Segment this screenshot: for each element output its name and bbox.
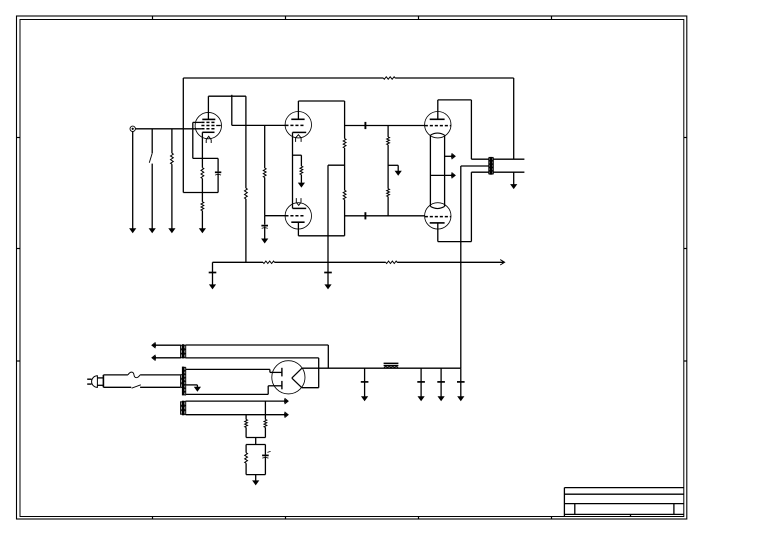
transformer T1 HV winding: [184, 367, 186, 395]
resistor R5 feedback: [183, 77, 513, 79]
wire driver B+ node: [328, 165, 345, 262]
wire B+ rail middle: [275, 261, 386, 263]
V1 plate: [202, 96, 215, 119]
switch S1: [149, 129, 152, 229]
V2b cathode: [293, 207, 307, 209]
resistor R15 humdinger: [245, 415, 248, 438]
tube V4 envelope: [425, 203, 451, 229]
wire OT center tap: [461, 165, 489, 167]
transformer T1 right top winding: [184, 345, 186, 358]
tube V2b envelope: [285, 203, 311, 229]
resistor R16 bias: [245, 445, 266, 475]
wire OT secondary bottom: [493, 171, 524, 173]
ground at S1: [149, 228, 156, 233]
wire input bus: [135, 128, 201, 130]
transformer T1 right bottom winding: [184, 401, 186, 415]
capacitor C3 filter: [209, 262, 217, 289]
wire V2a plate top: [298, 100, 344, 102]
transformer T2 secondary winding: [492, 157, 494, 174]
capacitor C1 bypass: [215, 158, 221, 192]
ground at V1 cathode: [199, 228, 206, 233]
V1 cathode: [202, 131, 214, 133]
wire NFB node: [183, 192, 218, 194]
wire V4 plate to OT: [438, 172, 489, 241]
V1 grid1: [201, 128, 216, 130]
wire B+ riser: [460, 166, 462, 368]
wire humdinger join: [246, 438, 265, 445]
ground at HV center tap: [194, 387, 201, 392]
tube V2a envelope: [285, 112, 311, 138]
V3 plate: [430, 100, 445, 119]
V4 filament: [430, 206, 444, 208]
wire V3 plate to OT: [438, 100, 472, 159]
plug P1 prongs: [87, 379, 91, 384]
V1 heater: [206, 136, 211, 143]
tube V1 envelope: [195, 112, 221, 138]
wire rectifier heater return: [302, 387, 319, 389]
transformer T1 rectifier-heater winding: [181, 345, 183, 358]
choke L1: [384, 363, 399, 368]
V2b grid: [285, 215, 305, 217]
tube V3 envelope: [425, 112, 451, 138]
wire V3 grid: [368, 125, 425, 127]
ground at J1: [129, 132, 136, 234]
V2b plate: [291, 222, 304, 236]
wire V2b plate link: [298, 235, 344, 237]
V5 plate 1: [281, 368, 283, 377]
capacitor C8 filter: [417, 368, 425, 401]
wire OT primary top: [471, 158, 489, 160]
wire OT secondary top: [493, 158, 524, 160]
ground at bias network: [252, 475, 259, 486]
resistor R13 V4 grid leak: [387, 145, 390, 216]
resistor R2 V1 plate load: [245, 96, 248, 262]
ground at grid leaks: [388, 165, 402, 176]
transformer T2 core: [490, 157, 493, 175]
capacitor C4 filter: [324, 262, 332, 289]
V5 filament: [292, 368, 302, 387]
wire V2 cathode tail: [293, 132, 302, 208]
V5 plate 2: [281, 381, 283, 389]
transformer T1 core top: [182, 344, 185, 358]
ground at C2: [261, 239, 268, 244]
wire NFB right: [513, 78, 515, 159]
resistor R3 V1 cathode: [201, 132, 204, 202]
V1 grid2: [201, 125, 220, 127]
resistor R9 paraphase: [263, 125, 266, 215]
resistor R7 V2a plate load: [343, 101, 346, 148]
wire coupling bottom: [345, 215, 368, 217]
resistor R1: [171, 129, 174, 229]
ground at OT secondary: [510, 172, 517, 189]
capacitor C11 bias: [262, 445, 271, 475]
capacitor C10 filter: [457, 368, 465, 401]
tube V5 rectifier envelope: [272, 361, 305, 394]
wire 5V top: [186, 345, 329, 368]
capacitor C6: [364, 212, 366, 219]
resistor R4: [201, 202, 204, 229]
wire B+ out: [302, 367, 461, 369]
transformer T2 primary winding: [489, 157, 491, 174]
V2a cathode: [293, 131, 307, 133]
wire V1 to V2 grid: [232, 95, 286, 126]
wire 5V bottom: [186, 358, 319, 388]
V4 grid: [425, 216, 451, 218]
heater arrow top: [445, 153, 456, 159]
heater arrow left 1: [152, 342, 181, 348]
ground at R1: [168, 228, 175, 233]
transformer T1 core mid: [182, 367, 185, 396]
transformer T1 core bottom: [182, 401, 185, 416]
fuse F1: [103, 372, 180, 378]
resistor R10 rail: [263, 261, 275, 263]
resistor R6 V2 cathode: [300, 155, 303, 183]
switch S2: [103, 385, 180, 388]
wire 6V bottom: [186, 412, 289, 418]
wire HV center tap: [186, 385, 198, 387]
heater arrow bottom: [430, 173, 455, 179]
title block: [564, 488, 683, 517]
plug P1 body: [92, 375, 104, 388]
V1 grid3: [193, 121, 216, 123]
wire 6V top: [186, 398, 289, 404]
resistor R8 V2b plate load: [343, 148, 346, 236]
V2a grid: [285, 124, 305, 126]
resistor R11 rail: [386, 261, 397, 263]
V4 plate: [430, 223, 445, 242]
wire HV bottom: [186, 386, 282, 395]
transformer T1 heater winding: [181, 402, 183, 415]
wire filament legs: [430, 135, 444, 206]
V2b heater: [296, 198, 301, 205]
wire V2b grid: [265, 215, 286, 217]
ground at V2 cathode: [298, 183, 305, 188]
border frame inner: [20, 20, 684, 517]
capacitor C9 filter: [437, 368, 445, 401]
resistor R14 humdinger: [264, 401, 267, 437]
V3 filament: [430, 133, 444, 135]
wire V1 g3 tap: [193, 122, 218, 158]
heater arrow left 2: [152, 355, 181, 361]
wire V4 grid: [368, 215, 425, 217]
V2a heater: [296, 135, 302, 142]
input jack J1: [130, 126, 135, 131]
wire B+ rail: [213, 261, 264, 263]
capacitor C2 paraphase: [261, 216, 268, 239]
resistor R12 V3 grid leak: [387, 126, 390, 145]
capacitor C5: [364, 122, 366, 129]
wire B+ rail right: [397, 260, 505, 265]
wire NFB left: [182, 78, 184, 193]
V2a plate: [291, 101, 304, 119]
wire V1 plate link: [208, 95, 246, 97]
capacitor C7 filter: [361, 368, 369, 401]
wire coupling top: [345, 125, 368, 127]
wire HV top: [186, 369, 282, 372]
transformer T1 primary winding: [181, 374, 183, 388]
V3 grid: [425, 125, 451, 127]
